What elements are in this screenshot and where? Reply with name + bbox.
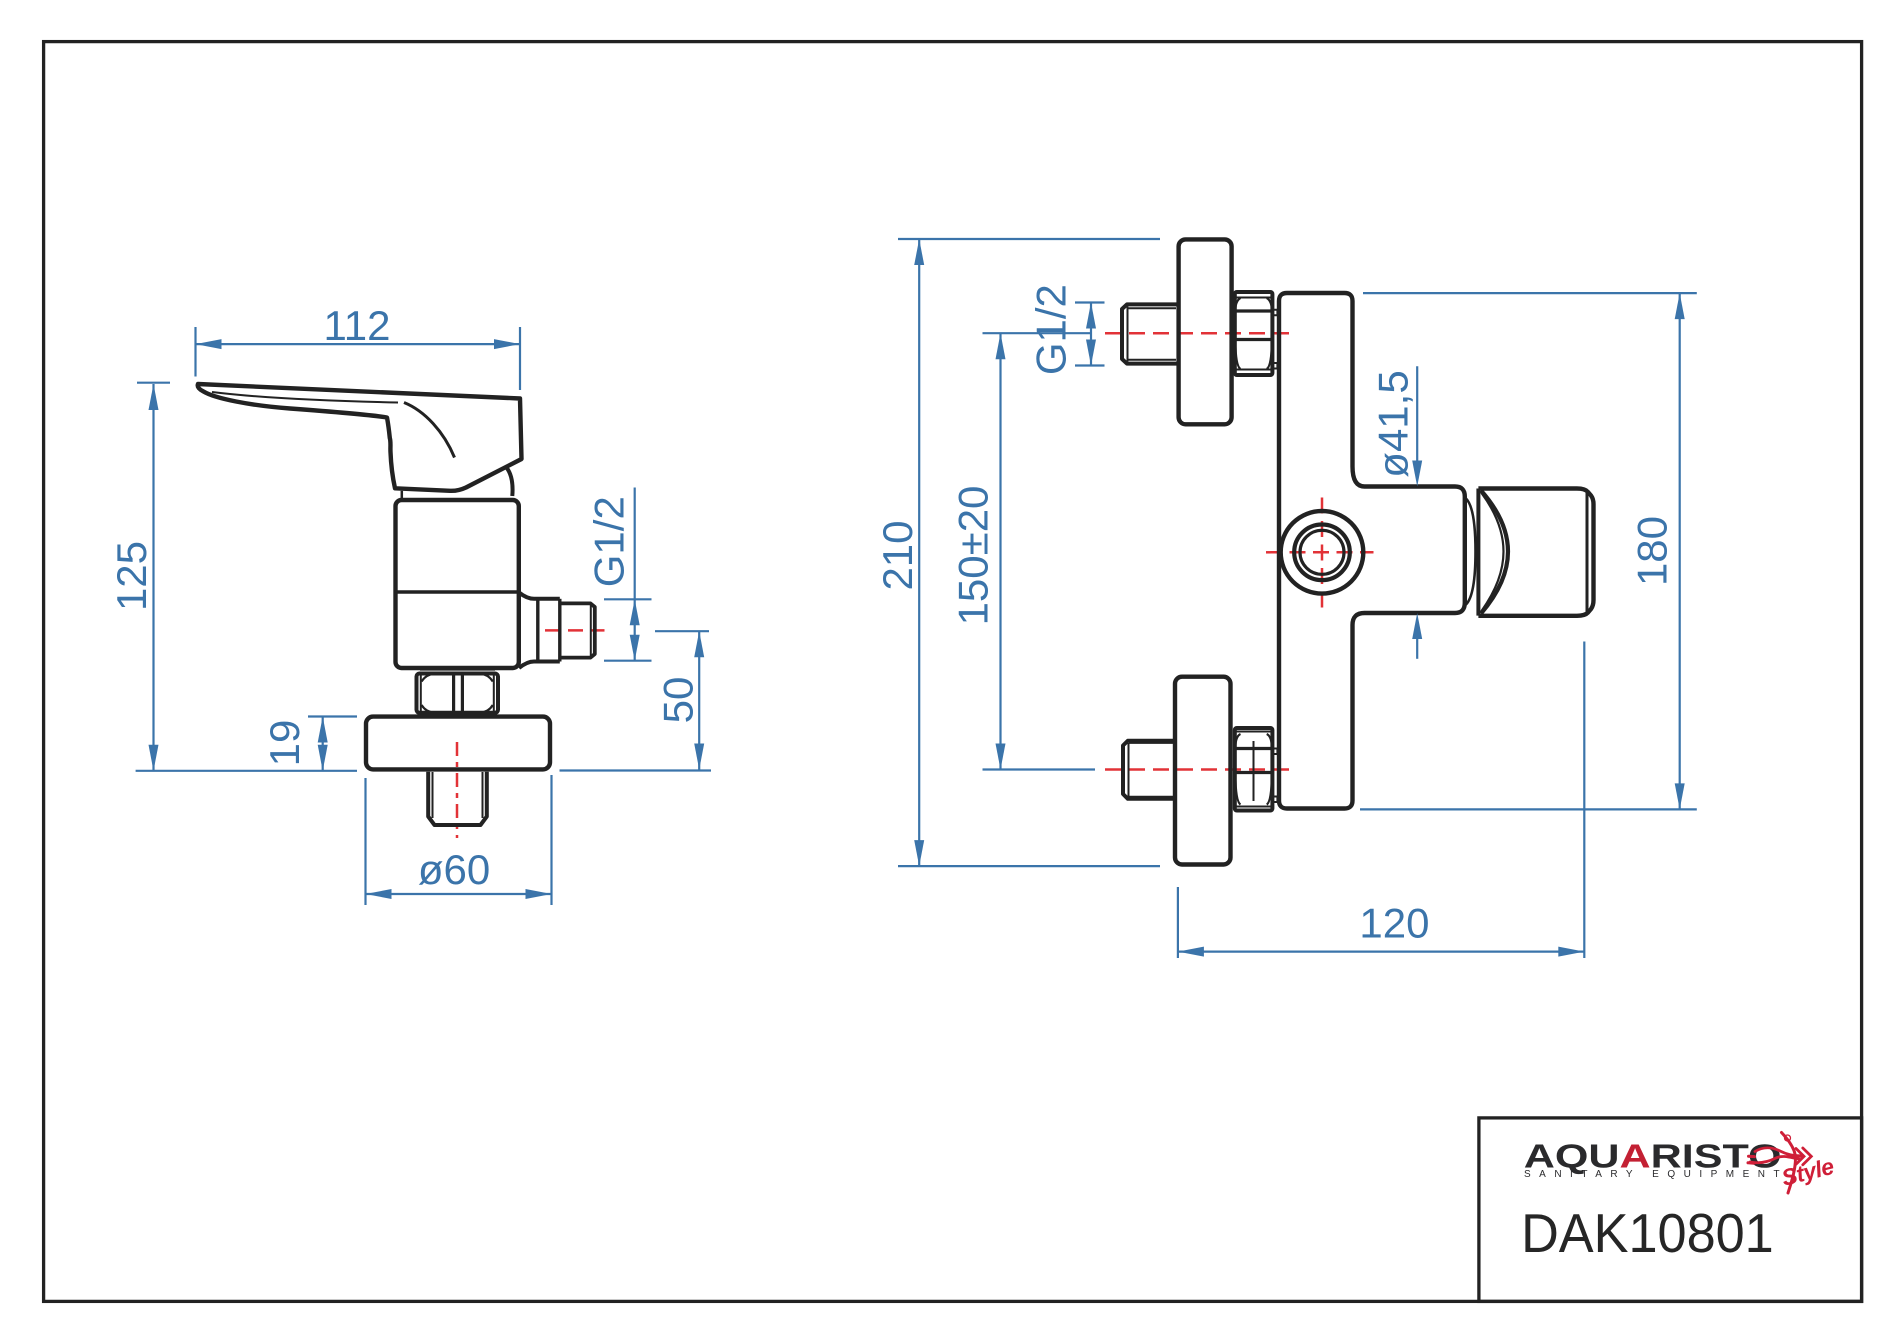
svg-text:112: 112 [324,302,391,349]
ball joint dome arc [507,468,513,497]
arrow 150 down [996,744,1006,770]
arrow 112 right [494,339,520,349]
hex nut facet arcs [422,674,493,713]
dimension 210 line [918,239,920,866]
outlet neck top [519,593,560,599]
handle knob (front view) [1478,489,1593,616]
shower outlet circle outer [1281,511,1364,594]
top hex barrel arcs [1235,298,1272,369]
arrow G1/2 right up [1086,303,1096,329]
shower outlet circle inner [1300,530,1344,574]
bottom supply pipe G1/2 [1123,741,1175,799]
shower outlet circle middle [1294,525,1350,581]
knob crescent outer arc [1481,491,1508,614]
knob crescent inner arc [1482,493,1504,611]
arrow 125 down [149,745,159,771]
washer line above nut [420,669,495,671]
logo registered mark [1785,1135,1791,1141]
dimension 19 top tick [308,715,357,717]
svg-text:G1/2: G1/2 [586,496,633,587]
wall pipe thin edges [433,772,483,818]
arrow G1/2 up [630,599,640,625]
dimension 50 line [698,631,700,769]
handle knob left edge [1476,489,1480,616]
bottom hex tabs [1272,749,1277,803]
arrow o60 left [366,889,392,899]
svg-text:DAK10801: DAK10801 [1521,1203,1774,1265]
svg-text:G1/2: G1/2 [1027,284,1074,375]
centerline bottom pipe axis [1105,768,1293,771]
body divider line [396,590,519,593]
dimension 112 extension lines [196,327,521,390]
arrow o41,5 up [1412,613,1422,639]
top wall flange (front view) [1179,239,1232,424]
arrow 210 up [914,239,924,265]
bottom hex adapter [1235,728,1273,811]
dimension 180 line [1679,293,1681,809]
wall pipe with thread [428,772,487,825]
bottom wall flange (front view) [1175,677,1231,865]
dimension 120 line [1178,950,1584,952]
top hex tabs [1272,310,1277,369]
dimension G1/2 ticks [604,599,652,660]
outlet thread chamfer line [590,604,592,657]
arrow 19 down [318,745,328,771]
svg-text:210: 210 [874,520,921,590]
outlet G1/2 thread [560,603,595,657]
red centerlines, right view [1105,333,1374,769]
arrow 50 down [694,744,704,770]
arrow 50 up [694,631,704,657]
knob chamfer line [1586,493,1589,613]
top hex adapter [1235,292,1273,375]
hex nut (side view) [417,674,499,713]
dimension o41,5 lower leader [1416,639,1418,659]
mixer body (front view) [1279,293,1465,809]
extension line at flange bottom right [560,769,712,771]
dimension 125 top tick [137,382,170,384]
dimension o60 extension lines [366,775,552,905]
arrow 19 up [318,717,328,743]
top hex facet lines [1235,311,1273,340]
svg-text:50: 50 [655,677,702,724]
extension line at flange bottom left [136,770,357,772]
top hex thin lines [1235,298,1272,370]
logo AQUARISTO wordmark [1524,1138,1782,1175]
outlet neck bottom [519,662,560,669]
arrow G1/2 right down [1086,340,1096,366]
arrow 210 down [914,840,924,866]
dimension 150+-20 line [999,333,1001,769]
dimension G1/2 leader [634,488,636,600]
svg-text:125: 125 [108,541,155,611]
logo arrow chevrons [1796,1148,1811,1165]
logo bow stroke [1782,1133,1796,1194]
top supply pipe G1/2 [1122,304,1179,363]
dimension 180 ticks [1360,293,1697,809]
svg-text:SANITARY EQUIPMENT: SANITARY EQUIPMENT [1524,1169,1788,1180]
handle top inner line [212,392,398,403]
centerline pipe axis [456,742,459,838]
svg-text:19: 19 [261,720,308,767]
bottom hex centerline tick [1253,741,1255,801]
red centerlines, left view [457,630,605,838]
dimension 125 line [152,384,154,771]
outlet collar line 1 [536,599,539,662]
handle knob neck curve [1466,499,1476,605]
wall flange (side view) [366,717,550,770]
arrow o41,5 down [1412,461,1422,487]
logo arrow shaft [1787,1155,1802,1158]
dimension G1/2 shaft [634,599,636,660]
svg-text:120: 120 [1359,900,1429,947]
centerline circle vertical [1321,498,1324,608]
arrow 150 up [996,333,1006,359]
dimension 50 top tick [655,630,709,632]
arrow 180 up [1675,293,1685,319]
arrow 180 down [1675,783,1685,809]
arrow 120 left [1178,947,1204,957]
arrow 120 right [1558,947,1584,957]
dimension 150+-20 ticks [983,333,1096,769]
dimension o41,5 upper leader [1416,366,1418,461]
dimension G1/2 right ticks [1075,303,1105,366]
logo wave lower [1750,1156,1799,1162]
dimension o60 line [366,893,552,895]
centerline top pipe axis [1105,332,1293,335]
logo wave upper [1755,1148,1801,1156]
svg-text:ø41,5: ø41,5 [1369,370,1416,477]
svg-text:ø60: ø60 [418,846,490,893]
dimension 19 shaft [322,717,324,771]
bottom pipe thin edges [1129,743,1174,797]
centerline outlet axis [545,629,605,632]
blue dimensions, left view [136,327,711,905]
dimension 120 extension lines [1178,642,1584,959]
title block box [1479,1118,1862,1302]
svg-text:180: 180 [1629,516,1676,586]
arrow 112 left [196,339,222,349]
dimension G1/2 right shaft [1090,303,1092,366]
bottom hex barrel arcs [1235,734,1272,805]
handle-body connector tick [401,491,404,500]
centerline circle horizontal [1266,551,1374,554]
lever handle (side view) [198,384,522,491]
arrow o60 right [526,889,552,899]
bottom hex thin lines [1235,732,1272,807]
hex nut inner thin verticals [421,674,494,713]
arrow 125 up [149,384,159,410]
blue dimensions, right view [898,239,1697,958]
mixer body (side view) [396,500,519,668]
outlet collar line 2 [558,599,561,662]
svg-text:150±20: 150±20 [950,486,997,626]
bottom hex facet lines [1235,749,1273,773]
dimension 112 line [196,343,521,345]
logo red speed dashes [1748,1133,1811,1194]
top pipe thin edges [1128,307,1177,362]
dimension 210 ticks [898,239,1160,866]
handle inner 3D curve [404,403,455,458]
hex nut facet lines [454,674,463,713]
arrow G1/2 down [630,635,640,661]
